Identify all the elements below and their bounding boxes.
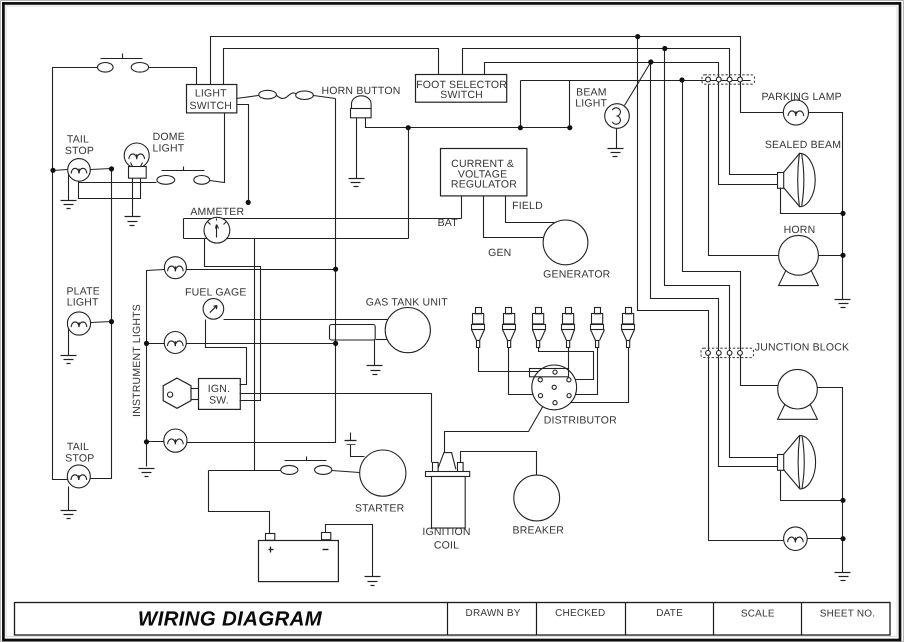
wire - vertical B: from W3 dot down, staircase to junction block c2, to sealed beam 2 lower lead [651,63,778,467]
wire - vertical D: from W4 dot down, staircase to junction block c4, to rear lamp [683,81,778,386]
wire - plate light ground stem [68,329,70,356]
svg-text:GENERATOR: GENERATOR [543,269,611,281]
wire - instrument lamp 1 left lead and bus [147,270,165,467]
svg-text:GAS TANK UNIT: GAS TANK UNIT [366,297,449,309]
svg-text:LIGHT: LIGHT [67,297,99,309]
rear lamp (lower right horn) [778,404,818,419]
node - junction dots [635,34,640,39]
ground - plate light [61,355,77,357]
wire - tail/stop 1 ground stem [68,175,70,201]
svg-text:HORN: HORN [784,224,816,236]
wire - ignition coil right nub to breaker [461,452,537,476]
wire - horn button output wire [366,118,570,128]
svg-text:DRAWN BY: DRAWN BY [466,608,521,619]
wire - net W2a: light switch to foot selector switch [224,49,439,85]
wire - instrument lamp 3 left lead [147,441,165,443]
current and voltage regulator box [441,149,527,196]
svg-text:TAIL: TAIL [67,134,89,146]
svg-text:INSTRUMENT LIGHTS: INSTRUMENT LIGHTS [131,304,143,417]
instrument lamp 1 [164,257,186,279]
spark plugs 1-6 [476,308,482,314]
svg-text:LIGHT: LIGHT [195,88,227,100]
wire - vertical A: from W1 dot down, staircase to junction block c1, to small lamp [638,37,784,541]
wire - dome light left stem to ground [132,178,134,217]
wire - left bus from toggle switch down to tail/stop lamp 2 [53,68,98,480]
wire - horn right lead to bus [819,255,843,257]
dome light switch S2 [162,170,205,172]
sealed beam 2 [778,455,784,471]
svg-text:LIGHT: LIGHT [152,142,184,154]
wire - tail/stop 2 ground stem [68,487,70,511]
svg-text:COIL: COIL [434,539,459,551]
wire - ammeter bottom bus [184,238,409,240]
svg-text:SWITCH: SWITCH [189,100,232,112]
wire - net W4: horn feed into top junction block [521,80,751,82]
ground - tail/stop 2 [61,510,77,512]
svg-text:LIGHT: LIGHT [575,97,607,109]
wire - sealed beam right lead to bus [781,188,843,214]
svg-text:DOME: DOME [153,131,185,143]
wire - regulator BAT stub [461,197,463,219]
wire - spark plug 2 wire to distributor lower-left pin [509,348,539,395]
wire - net W1: light switch to parking lamp (top wire) [211,37,784,113]
distributor [532,365,577,410]
svg-text:GEN: GEN [488,247,511,259]
wire - vertical C: from W2 dot down, staircase to junction block c3, to sealed beam 2 upper lead [665,49,778,458]
svg-text:SCALE: SCALE [741,609,775,620]
wire - instrument lamp 1 right lead [187,269,336,271]
svg-text:SW.: SW. [209,394,229,406]
title block [15,603,891,636]
svg-text:DISTRIBUTOR: DISTRIBUTOR [544,414,617,426]
wire - ignition switch terminal 2 to ignition coil left nub [240,394,432,463]
svg-text:FUEL GAGE: FUEL GAGE [185,286,247,298]
wire - spark plug 3 wire to distributor upper-right pin [539,348,594,380]
switch S1 (top left toggle) [101,58,143,60]
ground - battery minus [365,576,381,578]
wire - tail lamp base to dome switch [79,178,141,199]
wire - regulator GEN stub to generator left [484,197,544,238]
wire - ammeter area down to starter switch / battery plus [254,239,256,471]
wire - spark plug 4 wire to distributor rim [568,348,570,371]
small lamp lower right [784,527,808,551]
wire - tail/stop 1 left lead [53,170,68,171]
ground - instrument lights bus [139,468,155,470]
svg-text:STOP: STOP [65,452,94,464]
wire - spark plug 1 wire to distributor top pin [479,348,553,372]
starter switch S3 [285,460,327,462]
svg-text:SHEET NO.: SHEET NO. [820,609,876,620]
wire - spark plug 6 wire to distributor bottom pin [558,348,629,403]
wire - sealed beam 2 right lead [781,471,843,501]
wire - dome switch right lead up to light switch [210,113,225,183]
svg-text:IGN.: IGN. [208,383,230,395]
ground - dome light [125,216,141,218]
ground - right bus lower [835,572,851,574]
svg-text:WIRING DIAGRAM: WIRING DIAGRAM [138,607,323,630]
wire - ammeter top bus to regulator BAT [184,218,462,220]
svg-text:STARTER: STARTER [355,503,405,515]
light switch box [187,85,237,113]
wire - spark plug 5 wire to distributor lower-right pin [572,348,598,395]
wire - top junction block c1 down to horn [709,85,779,256]
junction block bottom [701,348,754,357]
svg-text:SEALED BEAM: SEALED BEAM [765,139,841,151]
svg-text:BAT: BAT [438,217,459,229]
svg-text:TAIL: TAIL [67,441,89,453]
generator [543,220,588,265]
svg-text:STOP: STOP [65,145,94,157]
wire - condenser to starter [351,445,365,457]
svg-text:SWITCH: SWITCH [440,89,483,101]
foot selector switch box [416,75,507,103]
wire - fuel gage bottom to ignition switch terminal 1 [206,320,247,385]
svg-text:HORN BUTTON: HORN BUTTON [321,85,400,97]
instrument lamp 2 [164,332,186,354]
wire - ammeter left U-turn [183,219,185,239]
wire - ammeter to ignition switch terminal 3 [205,239,261,401]
wire - distributor pointer to ignition coil tower [445,390,553,453]
ground - horn button [349,178,365,180]
ground - tail/stop 1 [61,200,77,202]
svg-text:AMMETER: AMMETER [190,206,244,218]
wire - regulator FIELD stub to generator top [506,197,555,223]
wire - gas tank sender rect to circle lower lead [376,339,388,341]
wire - toggle switch S1 to light switch box [149,68,197,85]
svg-text:FIELD: FIELD [512,200,543,212]
wire - net W3: foot selector switch to sealed beam lower filament [485,63,778,185]
wire - fuse output down to instrument lamps feed [187,99,336,443]
wire - starter switch to starter motor [332,471,360,473]
wire - tail/stop 1 right lead to right bus [91,169,112,170]
instrument lamp 3 [164,429,187,452]
ground - beam light [608,148,624,150]
ground - right bus upper [835,299,851,301]
svg-text:JUNCTION BLOCK: JUNCTION BLOCK [755,341,849,353]
wire - light switch lower output down to hidden junction dot [237,105,249,203]
starter motor [360,450,406,496]
svg-text:DATE: DATE [656,608,683,619]
wire - net W2b: foot selector switch to sealed beam upper filament [463,49,778,175]
ground - gas tank unit [367,365,383,367]
svg-text:REGULATOR: REGULATOR [451,179,517,191]
wire - plate light lead to right bus [91,322,112,323]
wire - right bus down to tail/stop 2 [91,169,112,479]
wire - instrument lamp 2 leads [147,343,165,345]
wire - diagonal branch to beam light [625,63,651,106]
wire - riser 2 from horn wire to W4 [569,81,571,128]
svg-text:PLATE: PLATE [66,285,99,297]
wire - fuel gage to gas tank unit [224,319,388,321]
fuse between light switch and instrument lamps [237,96,259,99]
wire - gas tank sender ground stem [374,340,376,366]
svg-text:CHECKED: CHECKED [555,608,605,619]
battery [266,534,275,541]
ignition switch box [199,379,241,410]
breaker [514,475,560,521]
junction block top [702,75,755,84]
wire - battery plus wire [209,471,270,534]
wire - riser 1 from horn wire to W4 [520,81,522,128]
condenser at starter [345,440,357,442]
wire - drop from horn wire to ammeter bottom bus [408,128,410,239]
wire - parking lamp right to upper right ground bus [809,113,843,300]
ignition switch key symbol [163,378,191,408]
wire - battery minus wire to ground [326,525,373,577]
wire - small lamp right lead [808,538,843,540]
wire - rear lamp right lead to lower right bus [818,388,843,573]
svg-text:BREAKER: BREAKER [513,525,565,537]
